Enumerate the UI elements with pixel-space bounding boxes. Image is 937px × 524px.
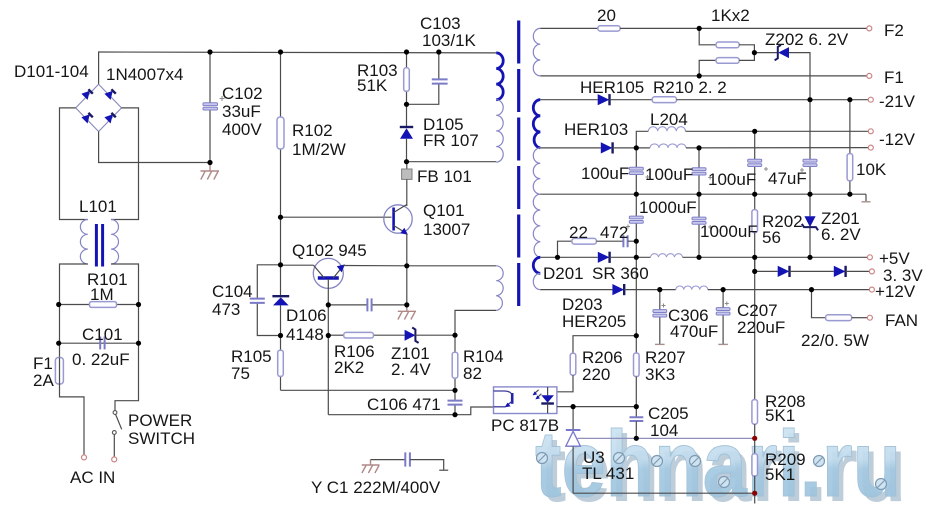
PC817 light arrows xyxy=(534,390,538,394)
wire HER103 to wavy inductor xyxy=(613,147,650,149)
svg-text:472: 472 xyxy=(600,223,628,242)
svg-text:SWITCH: SWITCH xyxy=(128,429,195,448)
resistor 10K leads xyxy=(849,100,851,154)
wire Q101 emitter to aux winding xyxy=(407,265,496,267)
wire bridge right vertex to L101 right xyxy=(111,108,138,220)
svg-text:4148: 4148 xyxy=(286,325,324,344)
svg-text:6. 2V: 6. 2V xyxy=(821,225,861,244)
svg-text:AC IN: AC IN xyxy=(70,468,115,487)
svg-text:100uF: 100uF xyxy=(708,170,756,189)
inductor L204 left jog xyxy=(636,131,648,148)
svg-text:FR 107: FR 107 xyxy=(423,131,479,150)
wire R206 branch xyxy=(573,336,636,354)
capacitor Y C1 plates xyxy=(405,452,410,466)
capacitor C102 plates xyxy=(203,103,218,106)
svg-text:R210 2. 2: R210 2. 2 xyxy=(653,78,727,97)
diode 3.3V #2 xyxy=(834,266,846,277)
secondary winding W2 bold (-21V) xyxy=(533,100,540,148)
wire wavy to +12V terminal xyxy=(708,289,870,291)
wire node to Q102 collector xyxy=(281,264,314,266)
wire 1K lower right jog xyxy=(739,53,754,61)
zener Z101 triangle xyxy=(405,330,416,341)
zener Z202 bar xyxy=(775,45,781,60)
transistor Q102 collector diagonal xyxy=(314,265,325,278)
capacitor C207 leads xyxy=(722,290,724,309)
svg-text:PC 817B: PC 817B xyxy=(491,416,559,435)
FAN branch jog xyxy=(812,290,826,318)
wire R209 bottom stub xyxy=(754,476,756,504)
svg-text:33uF: 33uF xyxy=(222,102,261,121)
resistor R207 body xyxy=(634,353,640,377)
wire Q102 base bottom rail to PC817 xyxy=(328,407,493,415)
wire ground to Y C1 xyxy=(371,459,406,461)
svg-text:10K: 10K xyxy=(856,160,887,179)
wire common ground rail xyxy=(540,193,866,195)
C102 plus mark xyxy=(220,96,225,101)
wire W1 top to resistor 20 xyxy=(540,27,598,29)
secondary winding W4 xyxy=(533,194,540,257)
zener Z101 bar xyxy=(412,328,418,343)
svg-text:HER205: HER205 xyxy=(562,312,626,331)
svg-text:+12V: +12V xyxy=(875,282,916,301)
wire L101 bottom-right down xyxy=(111,264,138,411)
capacitor C207 plates xyxy=(716,308,730,311)
secondary winding W5 thin bump xyxy=(533,273,540,289)
svg-text:103/1K: 103/1K xyxy=(422,31,477,50)
wire Q102 base down xyxy=(327,279,329,415)
svg-text:5K1: 5K1 xyxy=(765,406,795,425)
wire 1K upper right jog xyxy=(739,45,754,53)
svg-text:1M: 1M xyxy=(90,285,114,304)
svg-text:FB 101: FB 101 xyxy=(417,167,472,186)
inductor L101 left coil xyxy=(80,220,87,265)
capacitor C306 leads xyxy=(659,290,661,311)
svg-text:470uF: 470uF xyxy=(670,322,718,341)
bridge diode D102 (upper-right) xyxy=(104,89,115,100)
capacitor 100uF #3 leads xyxy=(754,131,756,160)
resistor R103 body xyxy=(404,68,410,92)
svg-text:-21V: -21V xyxy=(879,92,916,111)
wire resistor 20 to F2 terminal xyxy=(620,27,867,29)
capacitor 100uF #2 leads xyxy=(698,148,700,169)
svg-text:56: 56 xyxy=(762,228,781,247)
wire junction to Z202 xyxy=(754,52,777,54)
svg-text:F2: F2 xyxy=(884,21,904,40)
svg-text:1Kx2: 1Kx2 xyxy=(711,6,750,25)
resistor 22/0.5W body xyxy=(826,315,852,321)
secondary winding W3 xyxy=(533,148,540,194)
resistor R202 lower lead xyxy=(754,233,756,272)
resistor R206 body xyxy=(570,353,576,375)
wire R206 bottom to PC817 pin4 xyxy=(557,375,573,392)
wire D203 to wavy xyxy=(624,289,676,291)
resistor R101 wire xyxy=(60,304,139,306)
capacitor C101 plates xyxy=(100,337,104,350)
ground rail end hook xyxy=(865,194,867,201)
zener Z201 leads xyxy=(809,194,811,216)
resistor 1K upper body xyxy=(716,42,739,48)
fuse F1 body xyxy=(55,358,63,385)
svg-text:100uF: 100uF xyxy=(581,164,629,183)
wire L204 to -12V upper terminal xyxy=(686,130,869,132)
svg-text:1000uF: 1000uF xyxy=(700,222,758,241)
TL431 U3 bar xyxy=(566,429,581,431)
+5V terminal xyxy=(867,255,872,260)
svg-text:1000uF: 1000uF xyxy=(639,198,697,217)
+12V terminal xyxy=(869,287,874,292)
svg-text:D201: D201 xyxy=(543,264,584,283)
wire R210 to -21V terminal xyxy=(677,99,869,101)
diode D201 xyxy=(598,252,610,263)
TL431 U3 cathode lead xyxy=(572,407,574,430)
capacitor C106 plates xyxy=(448,401,463,405)
capacitor C104 plates xyxy=(250,299,265,303)
resistor 1K lower body xyxy=(716,58,739,64)
wavy inductor on +5V xyxy=(651,254,683,258)
svg-text:HER103: HER103 xyxy=(564,120,628,139)
wire R207 column (upper) xyxy=(635,257,637,353)
primary winding P1 bold part xyxy=(496,53,503,100)
inductor L101 right coil xyxy=(111,220,118,265)
diode HER103 xyxy=(601,142,613,153)
wire 3.3V rail left xyxy=(755,270,778,272)
wire R208 bottom xyxy=(754,424,756,454)
capacitor 472 plates xyxy=(623,235,627,247)
svg-text:D101-104: D101-104 xyxy=(14,62,89,81)
capacitor 47uF plates xyxy=(803,159,817,162)
capacitor 1000uF #2 leads xyxy=(698,194,700,218)
wire switch to AC terminal right xyxy=(113,434,115,457)
wire 1Kx2 left jog lower xyxy=(699,60,716,76)
wire 472 to 1000uF column xyxy=(628,240,637,242)
zener Z201 bar xyxy=(802,224,818,230)
-12V lower terminal xyxy=(868,145,873,150)
svg-text:Y C1 222M/400V: Y C1 222M/400V xyxy=(311,478,441,497)
svg-text:POWER: POWER xyxy=(128,411,192,430)
ground for Y C1 xyxy=(362,460,380,473)
svg-text:1N4007x4: 1N4007x4 xyxy=(106,65,184,84)
diode D203 xyxy=(612,284,624,295)
diode 3.3V #1 xyxy=(778,266,790,277)
wire 22/0.5W to FAN terminal xyxy=(852,317,868,319)
svg-text:47uF: 47uF xyxy=(768,169,807,188)
wire Z202 to -21V column xyxy=(789,53,810,100)
svg-text:100uF: 100uF xyxy=(645,165,693,184)
svg-text:220uF: 220uF xyxy=(737,318,785,337)
zener Z202 triangle xyxy=(778,47,789,58)
red junction dots xyxy=(752,436,757,441)
diode D105 bar xyxy=(400,126,413,128)
power switch bottom contact xyxy=(112,431,116,435)
bridge rectifier D101-104 diamond xyxy=(76,84,122,131)
diode D106 triangle xyxy=(273,297,289,305)
svg-text:SR 360: SR 360 xyxy=(592,264,649,283)
svg-text:-12V: -12V xyxy=(879,130,916,149)
resistor R202 body xyxy=(752,210,758,233)
svg-text:220: 220 xyxy=(582,365,610,384)
wire R105 bottom to R104 bottom xyxy=(281,389,456,391)
resistor R105 body xyxy=(278,350,284,376)
svg-text:1M/2W: 1M/2W xyxy=(292,140,346,159)
capacitor C104 loop wires xyxy=(257,265,280,299)
svg-text:C102: C102 xyxy=(222,84,263,103)
ferrite bead FB101 xyxy=(406,162,408,169)
bridge diode D104 (lower-right) xyxy=(104,113,115,124)
ground under C102 xyxy=(201,163,220,180)
-12V upper terminal xyxy=(868,129,873,134)
power switch top contact xyxy=(113,411,117,415)
wire W5 bottom to D203 xyxy=(540,289,612,291)
wavy inductor on -12V return xyxy=(650,144,686,148)
TL431 U3 anode lead xyxy=(572,446,574,493)
wire 22 to 472 xyxy=(596,240,623,242)
svg-text:FAN: FAN xyxy=(885,311,918,330)
svg-text:104: 104 xyxy=(650,421,678,440)
FAN terminal xyxy=(867,315,872,320)
bridge diode D101 (upper-left) xyxy=(81,89,92,100)
resistor R104 leads xyxy=(454,335,456,352)
resistor 10K body xyxy=(847,154,853,181)
secondary winding W1 (F2/F1) xyxy=(533,28,540,76)
transformer core (dashed) xyxy=(517,20,520,306)
capacitor 1000uF #1 leads xyxy=(635,194,637,217)
AC terminal left xyxy=(82,455,87,460)
svg-text:Q101: Q101 xyxy=(423,201,465,220)
capacitor (base bypass) plates xyxy=(367,298,371,311)
wire bridge left vertex to L101 left xyxy=(60,108,88,220)
resistor R208 body xyxy=(752,400,758,425)
capacitor C205 plates xyxy=(630,417,644,421)
AC terminal right xyxy=(112,457,117,462)
wire aux winding to Z101 node xyxy=(455,310,496,335)
capacitor 1000uF #1 plates xyxy=(629,216,643,219)
svg-text:D106: D106 xyxy=(286,306,327,325)
svg-text:473: 473 xyxy=(212,300,240,319)
svg-text:R102: R102 xyxy=(292,121,333,140)
secondary winding W5 bold bump xyxy=(533,257,540,273)
F2 terminal xyxy=(867,26,872,31)
svg-text:22: 22 xyxy=(569,223,588,242)
wire W1 bottom to F1 terminal xyxy=(540,75,867,77)
wire C205 bottom xyxy=(635,421,637,438)
transistor Q101 collector xyxy=(394,205,407,213)
svg-text:C106 471: C106 471 xyxy=(367,395,441,414)
svg-text:F1: F1 xyxy=(884,68,904,87)
svg-text:L101: L101 xyxy=(79,197,117,216)
capacitor C101 wire xyxy=(60,342,139,344)
diode D106 bar xyxy=(272,295,289,297)
diode D106 leads xyxy=(280,265,282,296)
svg-text:2A: 2A xyxy=(33,371,54,390)
resistor R103 leads xyxy=(406,52,408,68)
resistor R208 leads xyxy=(754,271,756,399)
svg-text:Q102 945: Q102 945 xyxy=(292,241,367,260)
wire bridge bottom to C102 ground rail xyxy=(99,132,210,163)
transistor Q101 emitter with arrow xyxy=(394,226,407,234)
-21V terminal xyxy=(868,97,873,102)
resistor R106 wire xyxy=(328,334,343,336)
transistor Q101 base bar xyxy=(392,208,395,231)
resistor R210 body xyxy=(652,97,676,103)
capacitor C306 plates xyxy=(653,310,667,313)
PC817 phototransistor xyxy=(494,391,512,395)
zener Z201 triangle xyxy=(804,216,815,227)
capacitor 100uF #1 leads xyxy=(635,148,637,169)
wire W2 top to HER105 xyxy=(540,99,597,101)
wire W2/W3 tap to HER103 xyxy=(540,147,601,149)
wire Q101 emitter down xyxy=(406,234,408,305)
optocoupler PC817 box xyxy=(494,387,557,414)
svg-text:2. 4V: 2. 4V xyxy=(391,360,431,379)
svg-text:TL 431: TL 431 xyxy=(582,464,634,483)
svg-text:C101: C101 xyxy=(82,325,123,344)
ground at Q101 emitter xyxy=(398,305,416,320)
transistor Q102 circle xyxy=(313,258,343,288)
inductor L204 coil xyxy=(648,127,685,132)
resistor R101 body xyxy=(90,302,117,308)
svg-text:13007: 13007 xyxy=(423,220,470,239)
resistor R106 body xyxy=(344,332,374,338)
wire D105 to winding xyxy=(406,139,408,162)
capacitor 100uF #3 plates xyxy=(748,159,762,162)
wire top rail +310V xyxy=(99,52,497,84)
svg-text:HER105: HER105 xyxy=(580,78,644,97)
capacitor (base bypass) wire xyxy=(328,304,367,306)
PC817 LED xyxy=(547,387,549,395)
resistor 22 body xyxy=(572,238,597,244)
wire +5V to 3.3V tap xyxy=(754,257,756,271)
svg-text:75: 75 xyxy=(231,364,250,383)
svg-text:L204: L204 xyxy=(650,110,688,129)
wire W5 top to D201 xyxy=(540,256,598,258)
primary aux winding P2 xyxy=(496,266,503,311)
svg-text:51K: 51K xyxy=(357,76,388,95)
wire between 3.3V diodes xyxy=(790,270,834,272)
wire wavy to +5V terminal xyxy=(683,256,868,258)
svg-text:5K1: 5K1 xyxy=(765,465,795,484)
capacitor 100uF #1 plates xyxy=(629,167,643,170)
TL431 reference wire xyxy=(577,437,754,439)
capacitor C106 leads xyxy=(454,390,456,400)
wire 1Kx2 left jog upper xyxy=(699,28,716,44)
power switch lever xyxy=(116,414,122,429)
resistor R104 body xyxy=(452,352,458,378)
wire Z101 to R104 top xyxy=(415,334,455,336)
wavy inductor on +12V xyxy=(676,286,708,290)
svg-text:20: 20 xyxy=(597,6,616,25)
wire PC817 pin3 to C205 node xyxy=(557,406,636,408)
wire wavy to -12V lower terminal xyxy=(686,147,868,149)
diode HER105 xyxy=(598,94,610,105)
wire Y C1 to stub terminal xyxy=(410,460,444,470)
resistor R102 body xyxy=(277,117,284,149)
svg-text:0. 22uF: 0. 22uF xyxy=(72,350,130,369)
primary winding P1 thin part xyxy=(496,100,503,162)
L101 core bars xyxy=(95,224,98,267)
resistor 20 body xyxy=(598,26,620,31)
capacitor C102 leads xyxy=(209,52,211,103)
svg-text:3K3: 3K3 xyxy=(645,365,675,384)
F1 terminal xyxy=(867,73,872,78)
wire R207 bottom to C205 xyxy=(635,377,637,418)
svg-text:22/0. 5W: 22/0. 5W xyxy=(801,331,869,350)
wire L101 bottom-left to R101/C101/F1 xyxy=(60,264,88,358)
bridge diode D103 (lower-left) xyxy=(81,113,92,124)
resistor R105 leads xyxy=(280,336,282,351)
wire HER105 to R210 xyxy=(610,99,653,101)
svg-text:Z202 6. 2V: Z202 6. 2V xyxy=(765,30,849,49)
transistor Q101 circle xyxy=(384,205,412,233)
resistor R102 leads xyxy=(280,52,282,117)
svg-text:400V: 400V xyxy=(222,120,262,139)
capacitor C103 plates xyxy=(432,79,448,83)
wire D201 to wavy xyxy=(610,256,651,258)
capacitor 1000uF #2 plates xyxy=(692,217,706,220)
wire diode2 to 3.3V terminal xyxy=(846,270,870,272)
svg-text:C104: C104 xyxy=(212,282,253,301)
wire U3 bottom to R209 bottom xyxy=(573,492,755,494)
resistor R209 body xyxy=(752,454,758,476)
capacitor 47uF leads xyxy=(809,100,811,161)
capacitor 100uF #2 plates xyxy=(692,168,706,171)
transistor Q102 base bar xyxy=(318,276,339,279)
wire Q102 emitter to Q101 emitter node xyxy=(343,265,407,267)
transistor Q102 emitter diagonal with arrow xyxy=(333,266,343,278)
TL431 U3 triangle xyxy=(566,431,581,446)
svg-text:2K2: 2K2 xyxy=(334,358,364,377)
wire R102 to Q101 base xyxy=(281,216,392,218)
capacitor C103 leads xyxy=(438,52,440,79)
diode D105 triangle xyxy=(400,128,413,139)
svg-text:82: 82 xyxy=(463,364,482,383)
wire F1 to AC terminal left xyxy=(60,384,85,455)
3.3V terminal xyxy=(869,269,874,274)
snubber 22/472 branch jog xyxy=(558,241,572,257)
